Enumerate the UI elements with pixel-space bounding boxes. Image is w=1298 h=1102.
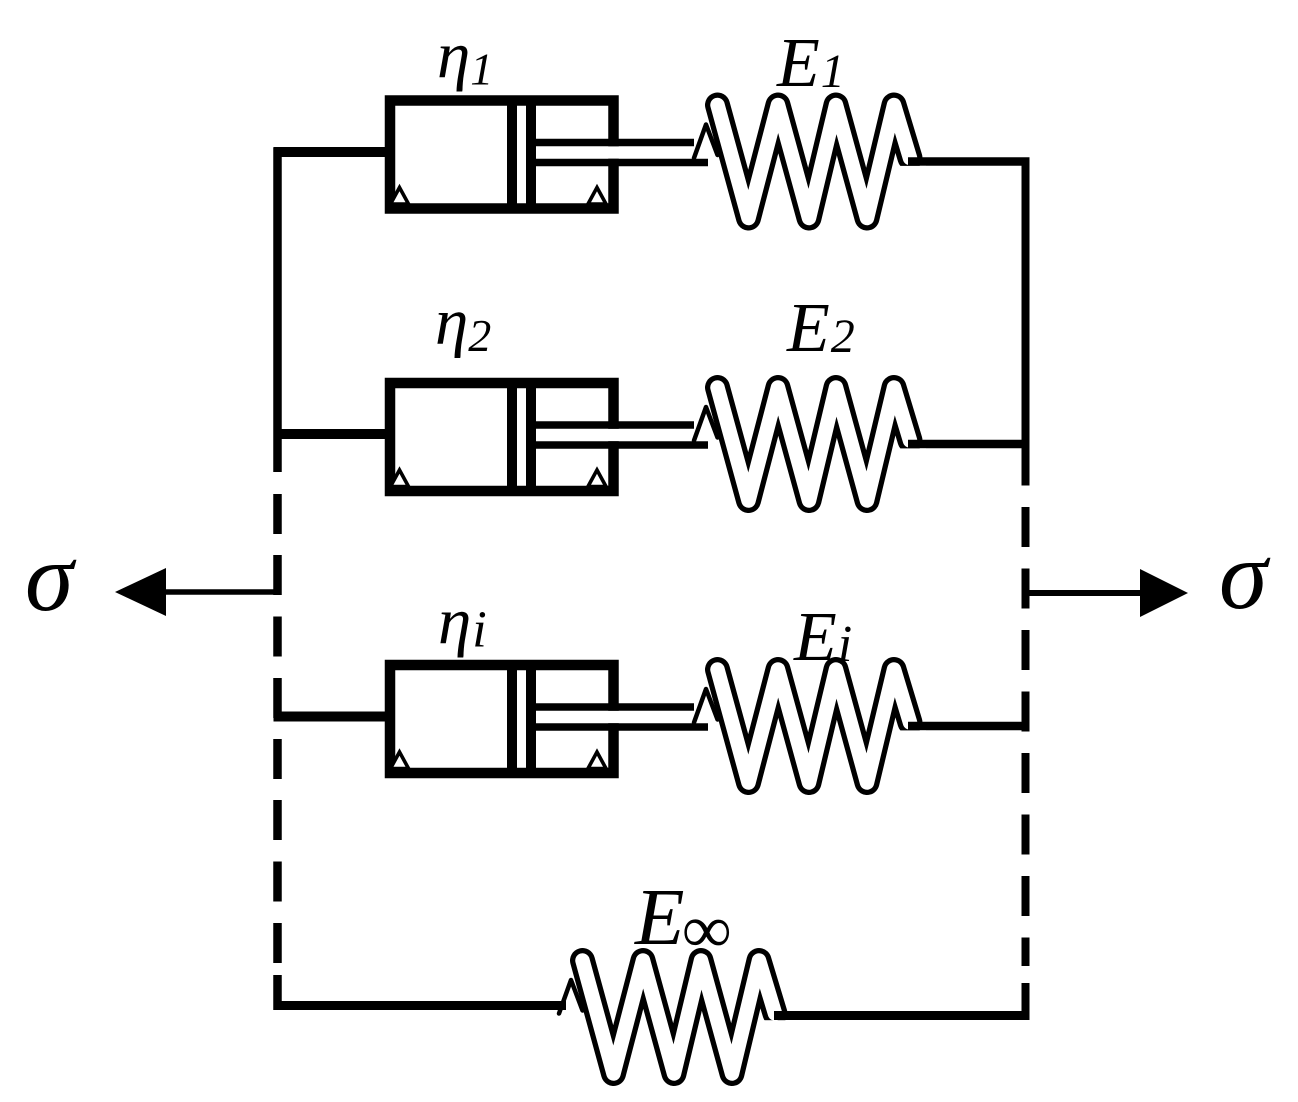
dashpot eta2 cylinder [390,383,614,491]
branch 4 right wire [774,1011,1030,1020]
dashpot etai piston plate A [507,665,517,773]
dashpot etai left seal triangle [391,752,409,769]
dashpot etai cylinder [390,665,614,773]
right sigma arrow head [1140,569,1188,617]
spring Einf start loop [559,980,583,1014]
left bus solid segment [273,148,282,473]
dashpot etai piston plate B [526,665,536,773]
dashpot eta2 piston plate A [507,383,517,491]
dashpot eta2 right seal triangle [588,470,606,487]
branch 1 left wire [274,147,396,157]
spring E2 start loop [694,407,718,441]
left sigma arrow shaft [163,589,274,595]
branch 2 left wire [274,429,396,439]
dashpot eta1 cylinder [390,101,614,209]
branch 3 right wire [908,722,1030,731]
branch 4 left wire [274,1001,567,1010]
spring E1 coil [718,105,911,218]
dashpot eta2 piston rod [531,429,702,441]
branch 2 right wire [908,440,1030,449]
svg-text:σ: σ [1219,522,1271,630]
right bus bottom corner stub [1022,983,1030,1020]
dashpot etai piston rod [531,711,702,723]
dashpot eta1 piston plate A [507,101,517,209]
spring E2 coil [718,388,911,501]
dashpot eta1 piston rod [531,146,702,158]
right bus dashed segment [1022,507,1030,966]
branch 1 right wire [908,157,1030,166]
dashpot eta1 piston plate B [526,101,536,209]
dashpot eta1 left seal triangle [391,188,409,205]
dashpot eta2 left seal triangle [391,470,409,487]
spring Ei coil [718,670,911,783]
spring E1 start loop [694,125,718,159]
branch 3 left wire [274,712,396,722]
spring Ei start loop [694,689,718,723]
dashpot eta1 right seal triangle [588,188,606,205]
left sigma arrow head [115,568,166,616]
right sigma arrow shaft [1025,590,1144,596]
dashpot eta2 piston plate B [526,383,536,491]
dashpot etai right seal triangle [588,752,606,769]
spring Einf coil [583,961,776,1074]
left bus dashed segment [273,494,282,963]
svg-text:σ: σ [25,524,77,632]
left bus bottom corner stub [273,975,282,1010]
right bus solid segment [1022,158,1030,486]
